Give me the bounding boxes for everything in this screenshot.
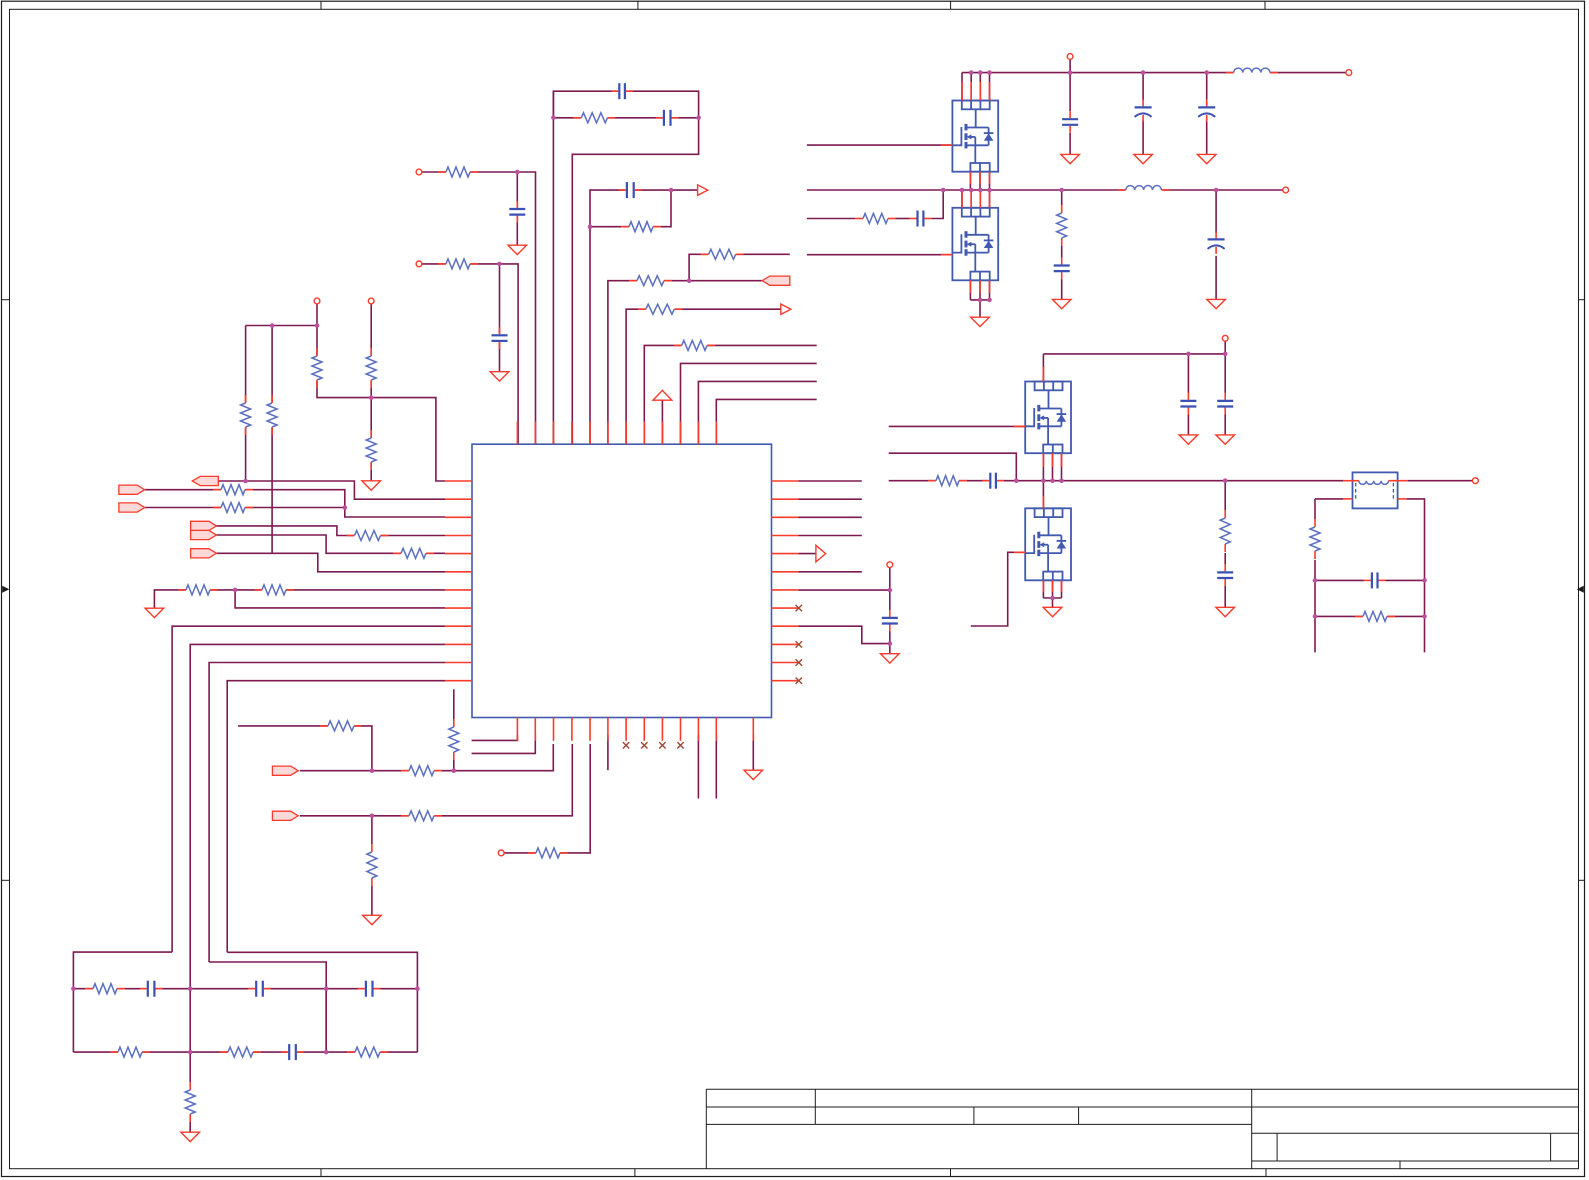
junction [497, 262, 502, 267]
no-connect X [623, 742, 629, 748]
no-connect X [641, 742, 647, 748]
wire row10/col [190, 644, 445, 988]
transformer pin [1389, 480, 1408, 482]
wire cap2 to gnd [1142, 120, 1144, 154]
resistor R (terminal row2) [446, 257, 471, 271]
junction [324, 986, 329, 991]
ground [490, 372, 509, 381]
wire arrow-tag row to pin2-left [218, 481, 445, 499]
wire circle row to pin5-bottom [504, 744, 590, 853]
ground [1179, 435, 1198, 444]
wire pin12-bottom stub [715, 735, 717, 799]
wire cap3 to gnd [1206, 120, 1208, 154]
wire pin5 loop left/top [590, 190, 671, 444]
resistor R (pin5-left row) [401, 546, 427, 560]
wire pin11-bottom stub [697, 735, 699, 799]
junction [243, 479, 248, 484]
junction [1050, 596, 1055, 601]
wire cap branch 2 [499, 264, 501, 372]
wire Q4 source bus [1043, 597, 1061, 599]
capacitor C (filter c1) [146, 980, 156, 998]
resistor R (filter r3) [228, 1045, 254, 1059]
ground [1207, 299, 1226, 308]
ground [1052, 299, 1071, 308]
ground [1061, 154, 1080, 163]
wire terminal stem [1224, 341, 1226, 354]
port tag (pin3-left net) [119, 485, 145, 494]
wire cap to gnd b [1224, 415, 1226, 435]
junction [696, 116, 701, 121]
wire sec left leg [1314, 499, 1316, 519]
wire right pin row 499.2 [799, 498, 862, 500]
border tick top [950, 1, 952, 9]
wire cap to ground [889, 632, 891, 654]
junction [1059, 478, 1064, 483]
inductor L2 (rail2) [1125, 183, 1162, 197]
signal arrow (pin5 net) [698, 185, 708, 195]
wire hanger R col [1061, 190, 1063, 205]
port tag B [191, 530, 217, 539]
wire to terminal [1408, 480, 1473, 482]
junction [687, 278, 692, 283]
inductor L1 (rail1) [1233, 66, 1270, 80]
wire rail1 [962, 72, 1346, 74]
port tag (pin6 net, left-pointing) [762, 276, 790, 285]
ground [881, 654, 900, 663]
wire bus to ground [979, 300, 981, 317]
junction [888, 641, 893, 646]
ground [1216, 607, 1235, 616]
wire left leg lower [1314, 560, 1316, 652]
resistor R (loop mid) [581, 111, 608, 125]
wire cap col b [1224, 354, 1226, 393]
capacitor C (loop mid) [662, 109, 672, 127]
wire rail1 to Q1 [989, 73, 991, 101]
junction [1214, 188, 1219, 193]
transistor Q3 (high-side) [1025, 382, 1071, 454]
junction [1204, 70, 1209, 75]
ground [363, 915, 382, 924]
wire tag row 771 to pin3-bottom [300, 744, 554, 771]
junction [669, 188, 674, 193]
wire Q1 source to rail2 [989, 172, 991, 190]
wire cap2 col [1142, 73, 1144, 101]
wire pin4 loop [553, 91, 698, 444]
port tag A [191, 521, 217, 530]
wire rail2 to Q2 [989, 190, 991, 208]
wire gate1 [807, 144, 953, 146]
wire hanger cap col [1215, 190, 1217, 233]
no-connect X [796, 659, 802, 665]
transformer pin [1398, 498, 1407, 500]
capacitor C (filter c4) [288, 1043, 298, 1061]
wire cap branch [516, 172, 518, 245]
resistor R (row771) [409, 764, 435, 778]
wire filter row1 [73, 988, 417, 990]
port tag (pin4-bottom net) [272, 811, 298, 820]
wire rail2 [807, 189, 1283, 191]
border tick bottom [1265, 1169, 1267, 1177]
terminal [314, 298, 320, 304]
ground [1043, 607, 1062, 616]
junction [1014, 478, 1019, 483]
terminal [416, 169, 422, 175]
wire from terminal [316, 304, 318, 326]
junction [978, 298, 983, 303]
capacitor C (filter c2) [255, 980, 265, 998]
wire pin1-bottom stub [472, 735, 518, 740]
resistor R (row726) [328, 719, 355, 733]
wire to ground [189, 1122, 191, 1132]
capacitor C (pin7 branch) [881, 616, 899, 625]
border centre arrow left [2, 586, 9, 593]
wire tag1 row to pin3-left [145, 490, 445, 517]
wire sec left [1315, 498, 1343, 500]
wire Q2 source down [989, 280, 991, 300]
transformer T1 [1353, 472, 1398, 508]
junction [987, 70, 992, 75]
wire Q3 source to rail4 [1052, 453, 1054, 481]
port tag (pin6-left net) [191, 549, 217, 558]
resistor R (pin5 loop) [629, 220, 654, 234]
wire Q3 source to rail4 [1042, 453, 1044, 481]
wire pin12 row [716, 399, 816, 444]
resistor R (col454) [447, 727, 461, 753]
port tag (pin3-bottom net) [272, 766, 298, 775]
wire Q4 source down [1042, 580, 1044, 598]
IC U1 pin stubs [516, 422, 518, 445]
title block line [1550, 1133, 1552, 1161]
junction [324, 1050, 329, 1055]
junction [270, 323, 275, 328]
resistor R (col371b) [364, 438, 378, 463]
terminal [368, 298, 374, 304]
capacitor C (rail1 b) [1134, 106, 1152, 116]
capacitor C (row2 branch) [491, 334, 509, 343]
wire cap to gnd [1061, 279, 1063, 299]
wire pin7 row [626, 309, 781, 444]
resistor R (row816) [409, 809, 435, 823]
no-connect X [796, 605, 802, 611]
junction [551, 116, 556, 121]
border centre arrow right [1577, 586, 1584, 593]
capacitor C (rail2 hanger2) [1207, 238, 1225, 248]
border tick left [2, 299, 10, 301]
signal arrow (right pin5) [816, 545, 826, 562]
border tick top [637, 1, 639, 9]
junction [1041, 478, 1046, 483]
resistor R (pin7 row) [645, 302, 675, 316]
terminal [1283, 187, 1289, 193]
junction [1313, 578, 1318, 583]
wire resistor to ground [371, 886, 373, 915]
junction [415, 986, 420, 991]
resistor R (col317) [310, 356, 324, 381]
ground [508, 245, 527, 254]
resistor R (terminal row1) [446, 165, 471, 179]
wire rail4 [889, 480, 1343, 482]
wire pin6 row [608, 281, 762, 445]
border tick left [2, 879, 10, 881]
junction [315, 323, 320, 328]
junction [987, 298, 992, 303]
junction [1050, 478, 1055, 483]
resistor R (pin6 upper) [708, 247, 736, 261]
ground [362, 481, 381, 490]
capacitor C (rail1 c) [1198, 106, 1216, 116]
ground [744, 770, 763, 779]
wire col to resistor [371, 816, 373, 844]
resistor R (pin6 row) [637, 274, 665, 288]
wire pin6 upper row [689, 254, 790, 280]
signal arrow (pin7 net) [781, 304, 791, 314]
junction [1422, 614, 1427, 619]
capacitor C (filter c3) [364, 980, 374, 998]
wire cap row l [1315, 579, 1364, 581]
wire resistor stub top [453, 689, 455, 719]
resistor R (row853) [536, 846, 561, 860]
title block line [973, 1107, 975, 1124]
wire to rail4 [889, 453, 1017, 481]
wire rail3 [1043, 353, 1225, 355]
wire gate3 [889, 425, 1025, 427]
border tick top [1264, 1, 1266, 9]
title block line [1251, 1089, 1253, 1169]
resistor R (col371a) [364, 356, 378, 381]
wire cap to gnd [1069, 133, 1071, 155]
wire gate4 [971, 552, 1025, 626]
capacitor C (sec) [1370, 571, 1379, 589]
wire col 245 down [245, 326, 247, 482]
junction [1223, 352, 1228, 357]
title block line [706, 1123, 1251, 1125]
wire row7 left [154, 590, 445, 608]
wire right pin9 bend [799, 626, 890, 643]
wire loop middle row [553, 117, 698, 119]
junction [888, 588, 893, 593]
wire cap to gnd a [1187, 415, 1189, 435]
resistor R (filter r4) [355, 1045, 381, 1059]
transistor Q2 (low-side) [952, 208, 998, 281]
wire row 397 to pin1-left [317, 326, 445, 482]
resistor R (RC branch) [863, 212, 889, 226]
wire pin8 row [644, 345, 816, 444]
junction [1059, 188, 1064, 193]
wire cap col [1069, 59, 1071, 111]
capacitor C (rail4) [989, 472, 998, 490]
wire right pin5 to arrow [799, 553, 816, 555]
wire rail1 to Q1 [961, 73, 963, 101]
wire rail1 to Q1 [970, 73, 972, 101]
MOSFET pin stubs [961, 82, 963, 101]
wire tagB row to pin5-left [216, 535, 445, 553]
wire source bus [970, 299, 989, 301]
resistor R (pin8 row) [681, 338, 707, 352]
wire Q2 source down [969, 280, 971, 300]
wire sec right leg [1407, 499, 1425, 653]
wire snub to gnd [1224, 586, 1226, 607]
junction [515, 170, 520, 175]
capacitor C (rail3 b) [1216, 399, 1234, 408]
wire Q1 source to rail2 [979, 172, 981, 190]
wire snub col [1224, 481, 1226, 510]
wire row 325 [246, 325, 317, 327]
junction [941, 188, 946, 193]
wire RC to rail2 [931, 190, 943, 219]
title block line [1399, 1161, 1401, 1169]
border tick right [1579, 299, 1585, 301]
transformer pin [1343, 480, 1359, 482]
no-connect X [796, 641, 802, 647]
ground [1216, 435, 1235, 444]
wire right pin row 481.0 [799, 480, 862, 482]
wire R to cap [1061, 246, 1063, 258]
terminal [887, 562, 893, 568]
wire row8 left [235, 590, 445, 608]
wire Q4 source down [1061, 580, 1063, 598]
junction [370, 814, 375, 819]
resistor R (filter r1) [93, 982, 118, 996]
wire rail3 to Q3 [1042, 354, 1044, 382]
junction [1422, 578, 1427, 583]
junction [452, 768, 457, 773]
border tick top [320, 1, 322, 9]
wire cap3 col [1206, 73, 1208, 101]
resistor R (row7 a) [186, 583, 211, 597]
wire tag3 row to pin6-left [216, 553, 445, 572]
wire filter mid feed [209, 962, 326, 1052]
wire rail2 to Q2 [961, 190, 963, 208]
capacitor C (snubber) [1216, 571, 1234, 580]
wire to arrow [671, 189, 698, 191]
junction [987, 188, 992, 193]
junction [969, 70, 974, 75]
junction [1068, 70, 1073, 75]
wire RC mid [895, 218, 910, 220]
resistor R (pin4-left row) [354, 529, 381, 543]
title block line [1252, 1160, 1579, 1162]
junction [188, 1050, 193, 1055]
wire resistor to row [453, 760, 455, 771]
resistor R (snubber) [1218, 518, 1232, 545]
resistor R (sec) [1363, 609, 1388, 623]
capacitor C (rail2 hanger) [1053, 264, 1071, 273]
resistor R (filter r2) [118, 1045, 143, 1059]
resistor R (filter gnd) [183, 1090, 197, 1115]
wire Q3 source to rail4 [1061, 453, 1063, 481]
port tag (arrow, pin2-left net) [192, 476, 218, 485]
wire row12/col [227, 681, 445, 953]
resistor R (col245) [239, 403, 253, 428]
wire tag row 816 to pin4-bottom [300, 744, 573, 816]
wire pin9 stem [661, 400, 663, 444]
wire right pin row 517.3 [799, 516, 862, 518]
wire tag2 row [145, 507, 345, 509]
junction [960, 188, 965, 193]
resistor R (sec left) [1308, 527, 1322, 552]
wire rail4 to Q4 [1042, 481, 1044, 509]
junction [1141, 70, 1146, 75]
no-connect X [677, 742, 683, 748]
resistor R (rail2 hanger) [1055, 213, 1069, 239]
capacitor C (rail3 a) [1179, 399, 1197, 408]
wire filter top left [73, 952, 172, 989]
wire filter row2 [73, 1051, 417, 1053]
port tag (pin3-left net b) [119, 503, 145, 512]
ground [181, 1132, 200, 1141]
wire terminal row2 to pin1 [422, 264, 518, 444]
resistor R (tag2 row) [221, 501, 246, 515]
wire tagA row to pin4-left [216, 526, 445, 536]
wire Q2 source down [979, 280, 981, 300]
title block line [814, 1089, 816, 1124]
wire rail2 to Q2 [979, 190, 981, 208]
wire right pin row 535.5 [799, 535, 862, 537]
resistor R (row7 b) [262, 583, 287, 597]
terminal [498, 850, 504, 856]
wire right pin7 row [799, 589, 890, 591]
wire right pin row 571.8 [799, 571, 862, 573]
ground [145, 608, 164, 617]
resistor R (rail4) [936, 474, 960, 488]
terminal [1346, 70, 1352, 76]
title block line [1276, 1133, 1278, 1161]
junction [369, 395, 374, 400]
capacitor C (RC branch) [916, 210, 925, 228]
title block line [706, 1088, 1578, 1090]
wire cap to gnd2 [1215, 256, 1217, 300]
wire col 371 to ground [370, 398, 372, 481]
wire rail1 to Q1 [979, 73, 981, 101]
wire terminal row1 to pin2 [422, 172, 536, 444]
wire RC branch left [807, 218, 855, 220]
wire from terminal 2 [370, 304, 372, 398]
wire Q4 source down [1052, 580, 1054, 598]
junction [233, 588, 238, 593]
no-connect X [659, 742, 665, 748]
junction [978, 70, 983, 75]
wire pin5 loop bottom/right [590, 190, 671, 227]
wire filter col3 [325, 989, 327, 1052]
wire row9/col [172, 626, 445, 952]
wire pin3 column [552, 91, 554, 444]
capacitor C (row1 branch) [508, 208, 526, 217]
junction [188, 986, 193, 991]
terminal [1222, 335, 1228, 341]
resistor R (col372) [365, 852, 379, 879]
transistor Q4 (low-side) [1025, 508, 1071, 580]
wire pin13-bottom to ground [752, 735, 754, 770]
signal arrow up (pin9) [653, 390, 672, 400]
resistor R (tag1 row) [221, 483, 246, 497]
ground [971, 317, 990, 326]
IC U1 body [472, 444, 772, 717]
wire filter centre col [189, 989, 191, 1082]
capacitor C (loop top) [618, 82, 627, 100]
junction [1313, 614, 1318, 619]
terminal [1473, 478, 1479, 484]
capacitor C (pin5 loop) [625, 181, 635, 199]
junction [1223, 478, 1228, 483]
border tick bottom [320, 1169, 322, 1177]
wire terminal col [889, 568, 891, 610]
capacitor C (rail1 a) [1061, 118, 1079, 127]
wire pin10 row [681, 363, 817, 444]
terminal [416, 261, 422, 267]
wire filter left side [72, 989, 74, 1052]
junction [588, 224, 593, 229]
title block line [1078, 1107, 1080, 1124]
